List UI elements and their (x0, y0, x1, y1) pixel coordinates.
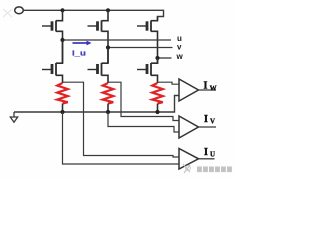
wire: bus reference to op-amp U3 (63, 112, 180, 164)
wire: column 1 U to Q4 (62, 40, 64, 63)
transistor Q4 (lower row, phase U low side) (42, 40, 63, 83)
node dot R2-bus (106, 110, 110, 114)
op-amp U3 (Iu) (179, 149, 215, 170)
wire: top supply rail (23, 10, 163, 20)
svg-text:I: I (204, 147, 208, 158)
svg-text:v: v (177, 43, 182, 52)
node dot U (60, 38, 64, 42)
node dot rail-Q1 (60, 8, 64, 12)
resistor R1 (shunt, phase U) (57, 83, 68, 112)
svg-text:U: U (210, 151, 215, 159)
op-amp U2 (Iv) (179, 116, 216, 138)
watermark X top-left (3, 9, 12, 17)
svg-text:W: W (210, 84, 217, 92)
transistor Q2 (top row, phase V high side) (88, 10, 109, 47)
svg-text:I_u: I_u (72, 49, 86, 58)
wire: phase W line (158, 57, 172, 59)
wire: bus reference to op-amp U2 (108, 112, 179, 132)
current arrow I_u (73, 41, 92, 46)
wire: sense V to op-amp U2 (108, 82, 179, 120)
op-amp U1 (Iw) (179, 79, 216, 101)
wire: ground bus (14, 96, 179, 113)
wire: column 3 W to Q6 (157, 58, 159, 64)
wire: phase V line (108, 47, 173, 49)
svg-text:w: w (176, 52, 184, 61)
node dot V (106, 45, 110, 49)
transistor Q5 (lower row, phase V low side) (88, 48, 109, 84)
svg-text:I: I (204, 114, 208, 125)
node dot R1-bus (60, 110, 64, 114)
resistor R2 (shunt, phase V) (103, 83, 114, 112)
svg-text:V: V (210, 118, 215, 126)
watermark logo (183, 164, 190, 173)
wire: sense W to op-amp U1 (158, 82, 180, 84)
terminal (supply input) (15, 7, 24, 14)
svg-text:I: I (204, 81, 208, 92)
resistor R3 (shunt, phase W) (152, 83, 163, 112)
transistor Q3 (top row, phase W high side) (137, 17, 158, 59)
node dot R3-bus (155, 110, 159, 114)
node dot rail-Q2 (106, 8, 110, 12)
transistor Q6 (lower row, phase W low side) (137, 58, 158, 83)
node dot W (155, 56, 159, 60)
wire: column 2 V to Q5 (107, 48, 109, 64)
watermark text (197, 167, 232, 173)
wire: phase U line (63, 39, 172, 41)
wire: sense U to op-amp U3 (63, 82, 180, 157)
transistor Q1 (top row, phase U high side) (42, 10, 63, 40)
ground (10, 112, 17, 122)
